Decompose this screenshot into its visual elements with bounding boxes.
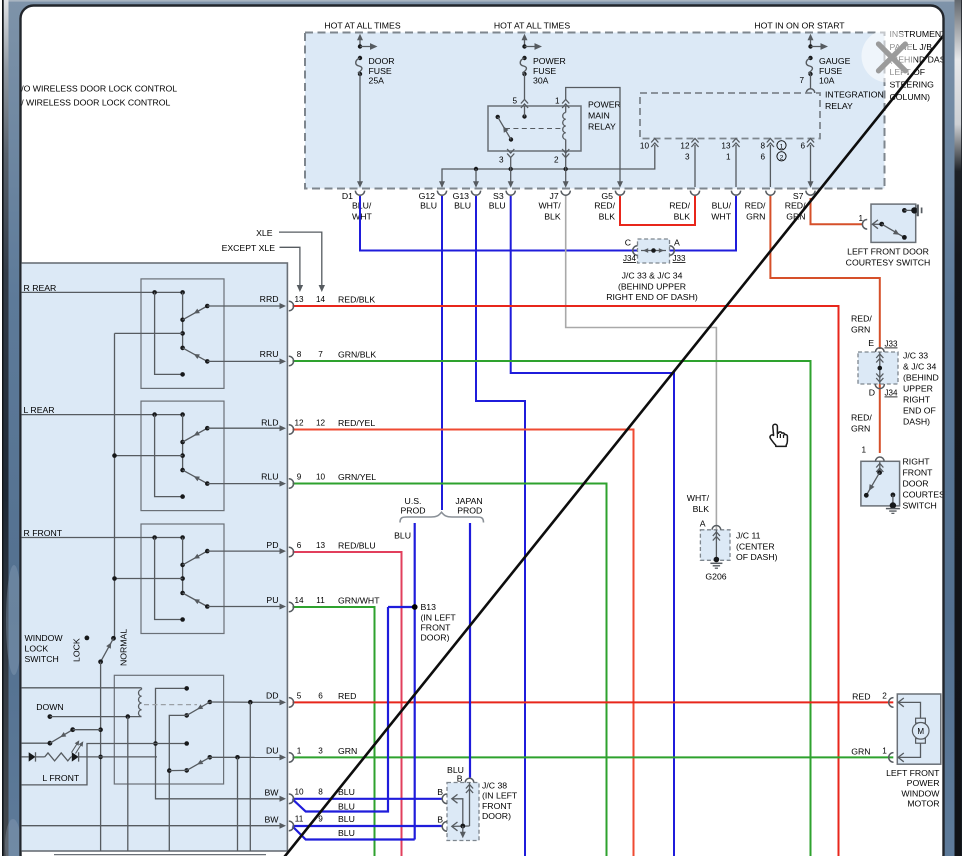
L REAR feed wire (19, 414, 183, 416)
svg-text:PROD: PROD (400, 506, 425, 516)
svg-text:FUSE: FUSE (819, 66, 842, 76)
J/C38 internal wires (469, 783, 471, 827)
svg-text:BLU: BLU (338, 801, 355, 811)
svg-text:JAPAN: JAPAN (455, 496, 482, 506)
svg-text:R REAR: R REAR (24, 283, 57, 293)
connector S3 at x=510.7 (506, 191, 515, 196)
svg-text:RED/: RED/ (669, 201, 690, 211)
svg-text:30A: 30A (533, 75, 549, 85)
R FRONT outputs to connector (207, 550, 282, 552)
svg-text:DOOR: DOOR (369, 56, 395, 66)
svg-text:6: 6 (760, 153, 765, 162)
svg-text:RELAY: RELAY (588, 122, 616, 132)
svg-text:FUSE: FUSE (533, 66, 556, 76)
R FRONT pole column (182, 538, 184, 594)
svg-text:RRD: RRD (260, 294, 279, 304)
relay pin 1 (562, 100, 569, 104)
svg-text:BLU: BLU (420, 201, 437, 211)
svg-text:1: 1 (780, 143, 784, 150)
svg-text:WHT: WHT (352, 212, 372, 222)
R FRONT up arm (183, 551, 208, 565)
svg-text:FUSE: FUSE (369, 66, 392, 76)
L REAR down arm (183, 470, 208, 484)
ground symbol G206 (710, 562, 722, 564)
svg-text:J33: J33 (673, 254, 686, 263)
svg-text:GRN: GRN (746, 212, 765, 222)
svg-text:SWITCH: SWITCH (903, 501, 937, 511)
svg-text:GRN: GRN (338, 746, 357, 756)
svg-text:1: 1 (858, 214, 863, 223)
L REAR up arm (183, 428, 208, 442)
svg-text:MAIN: MAIN (588, 111, 610, 121)
svg-text:FRONT: FRONT (482, 801, 513, 811)
svg-text:END OF: END OF (903, 406, 936, 416)
svg-text:M: M (917, 727, 924, 736)
mouse cursor (hand pointer) (770, 424, 787, 446)
wire G5 RED/BLK loop to relay pin 12/3 (620, 196, 695, 225)
coil junction drop (127, 717, 129, 851)
svg-text:J/C 11: J/C 11 (736, 531, 761, 541)
svg-text:J/C 33 & J/C 34: J/C 33 & J/C 34 (622, 271, 683, 281)
wire S3 BLU to long drop x674 (511, 196, 674, 856)
connector J7 at x=565.7 (561, 191, 570, 196)
svg-text:DASH): DASH) (903, 417, 930, 427)
svg-text:10: 10 (640, 142, 650, 151)
svg-text:BLU: BLU (338, 828, 355, 838)
common bus vertical (114, 333, 116, 638)
DU arm (184, 768, 189, 773)
svg-text:J33: J33 (885, 340, 898, 349)
LED arrows (72, 742, 79, 753)
svg-text:XLE: XLE (256, 228, 273, 238)
inner feed top (156, 688, 283, 798)
svg-text:HOT AT ALL TIMES: HOT AT ALL TIMES (494, 21, 570, 31)
junction S3 / pin3 (509, 167, 513, 171)
svg-text:U.S.: U.S. (405, 496, 422, 506)
L REAR pole column (182, 415, 184, 471)
svg-text:BLK: BLK (544, 212, 561, 222)
wire BW1 second BLU to B13 branch (293, 607, 389, 812)
R REAR up arm (183, 306, 208, 320)
svg-text:WHT/: WHT/ (687, 493, 710, 503)
svg-text:BLK: BLK (599, 212, 616, 222)
svg-text:PU: PU (266, 595, 278, 605)
svg-text:E: E (868, 338, 874, 348)
svg-text:C: C (625, 238, 631, 248)
junction connector J/C 33 & J/C 34 right (E/D) (858, 352, 898, 384)
connector G5 at x=620 (615, 191, 624, 196)
svg-text:BW: BW (265, 814, 280, 824)
svg-text:8: 8 (760, 142, 765, 151)
wire S7 RED/GRN to left front door courtesy switch (811, 198, 864, 224)
svg-text:7: 7 (799, 76, 804, 85)
DD arm (184, 713, 189, 718)
svg-text:S7: S7 (793, 191, 804, 201)
NC contact stub (156, 743, 187, 745)
connector S7 at x=810.5 (806, 191, 815, 196)
svg-text:(CENTER: (CENTER (736, 541, 775, 551)
svg-text:13: 13 (294, 295, 304, 304)
svg-text:W/O WIRELESS DOOR LOCK CONTROL: W/O WIRELESS DOOR LOCK CONTROL (13, 84, 177, 94)
svg-text:RLD: RLD (261, 418, 278, 428)
wire: door fuse to D1 (359, 74, 361, 185)
gauge fuse 10A (810, 37, 812, 47)
svg-text:RIGHT: RIGHT (903, 457, 931, 467)
R REAR feed wire (19, 291, 183, 293)
R FRONT common feed from bus (115, 578, 183, 580)
coil feed stub from left edge (19, 687, 142, 689)
svg-text:RED: RED (338, 691, 356, 701)
svg-text:1: 1 (882, 747, 887, 756)
relay pin 2 (562, 154, 569, 158)
lock switch arm (111, 636, 116, 641)
svg-text:DOOR): DOOR) (482, 811, 511, 821)
svg-text:LEFT FRONT DOOR: LEFT FRONT DOOR (847, 247, 929, 257)
svg-text:BLU: BLU (338, 814, 355, 824)
left front door courtesy switch (871, 204, 916, 242)
svg-text:L REAR: L REAR (24, 405, 55, 415)
svg-text:GRN/BLK: GRN/BLK (338, 349, 376, 359)
svg-text:1: 1 (861, 446, 866, 455)
svg-text:W/ WIRELESS DOOR LOCK CONTROL: W/ WIRELESS DOOR LOCK CONTROL (13, 98, 171, 108)
wire row RRU GRN/BLK (293, 361, 811, 856)
DU output (210, 756, 282, 758)
connector RED/GRN at x=770.4 (766, 191, 775, 196)
svg-text:RED/: RED/ (745, 201, 766, 211)
right chrome strips (955, 0, 962, 856)
svg-text:BLU/: BLU/ (712, 201, 732, 211)
wire row RLU GRN/YEL (293, 484, 607, 856)
svg-text:14: 14 (316, 295, 326, 304)
svg-text:WINDOW: WINDOW (25, 633, 64, 643)
lock contact (85, 636, 90, 641)
svg-text:2: 2 (882, 692, 887, 701)
relay coil (563, 113, 566, 140)
svg-text:7: 7 (318, 350, 323, 359)
svg-text:B13: B13 (421, 602, 437, 612)
door fuse 25A (359, 37, 361, 47)
svg-text:13: 13 (721, 142, 731, 151)
svg-text:9: 9 (297, 473, 302, 482)
svg-text:DOWN: DOWN (36, 702, 64, 712)
L REAR switch unit box (141, 401, 224, 511)
svg-text:POWER: POWER (533, 56, 566, 66)
wire B13 branch to BW1 (388, 606, 415, 608)
l front switch arm (19, 742, 50, 744)
wire BW1 BLU to J/C38 pin B (293, 798, 443, 800)
integration relay pin 12/3 wire (691, 139, 698, 143)
svg-text:GRN: GRN (851, 747, 870, 757)
R FRONT down arm (183, 593, 208, 607)
svg-text:RED: RED (852, 692, 870, 702)
wire row DU GRN to motor pin 1 (293, 756, 894, 758)
bottom bus BW2 (19, 825, 282, 827)
relay mechanical link (dashed) (505, 128, 561, 130)
svg-text:SWITCH: SWITCH (25, 654, 59, 664)
svg-text:PD: PD (266, 540, 278, 550)
wire G13 BLU to long drop x525 (476, 196, 525, 856)
mechanical link dashed (144, 704, 197, 706)
power main relay U1 box (488, 106, 581, 151)
svg-text:D: D (869, 388, 875, 398)
svg-text:UPPER: UPPER (903, 384, 933, 394)
svg-text:3: 3 (685, 153, 690, 162)
R FRONT switch unit box (141, 524, 224, 634)
svg-text:MOTOR: MOTOR (907, 799, 939, 809)
wire RED/GRN relay 8/6 to J/C33 E (770, 196, 879, 349)
R REAR common feed from bus (115, 332, 183, 334)
svg-text:G206: G206 (705, 572, 726, 582)
down feed terminal (48, 714, 53, 719)
svg-text:DOOR: DOOR (903, 479, 929, 489)
svg-text:RIGHT: RIGHT (903, 395, 931, 405)
svg-text:HOT IN ON OR START: HOT IN ON OR START (754, 21, 845, 31)
svg-text:10: 10 (316, 473, 326, 482)
svg-text:GAUGE: GAUGE (819, 56, 851, 66)
R FRONT bypass to lower contact (155, 538, 183, 620)
svg-text:WINDOW: WINDOW (901, 788, 940, 798)
svg-text:G13: G13 (453, 191, 470, 201)
svg-text:RED/BLK: RED/BLK (338, 294, 375, 304)
svg-text:G5: G5 (601, 191, 613, 201)
L REAR bypass to lower contact (155, 415, 183, 497)
svg-text:R FRONT: R FRONT (24, 528, 63, 538)
svg-text:POWER: POWER (907, 778, 940, 788)
svg-text:LOCK: LOCK (72, 638, 82, 662)
svg-text:8: 8 (318, 787, 323, 796)
svg-text:RED/: RED/ (594, 201, 615, 211)
integration relay pin 13/1 wire (732, 139, 739, 143)
svg-text:B: B (437, 815, 443, 825)
down relay box (114, 675, 223, 784)
svg-text:1: 1 (726, 153, 731, 162)
svg-text:B: B (437, 787, 443, 797)
svg-text:J34: J34 (885, 389, 898, 398)
svg-text:& J/C 34: & J/C 34 (903, 362, 936, 372)
svg-text:J7: J7 (550, 191, 559, 201)
svg-text:RLU: RLU (261, 472, 278, 482)
arm link U (169, 715, 186, 851)
svg-text:WHT/: WHT/ (538, 201, 561, 211)
relay pin 3 (507, 154, 514, 158)
svg-text:BLU/: BLU/ (352, 201, 372, 211)
svg-text:6: 6 (297, 541, 302, 550)
svg-text:RELAY: RELAY (825, 101, 853, 111)
svg-text:11: 11 (316, 596, 325, 605)
svg-text:3: 3 (318, 747, 323, 756)
R REAR down arm (183, 348, 208, 362)
svg-text:L FRONT: L FRONT (42, 773, 80, 783)
DD output (210, 701, 282, 703)
svg-text:J34: J34 (623, 254, 636, 263)
R FRONT feed wire (19, 537, 183, 539)
svg-text:8: 8 (297, 350, 302, 359)
wire: gauge fuse to integration relay pin 7 (810, 74, 812, 90)
left front power window motor box (897, 694, 941, 764)
integration relay pin 8/6 wire (767, 139, 774, 143)
junction G13 drop (474, 167, 478, 171)
svg-text:NORMAL: NORMAL (118, 629, 128, 666)
down relay coil (139, 690, 142, 717)
wire row RLD RED/YEL (293, 430, 634, 856)
svg-text:GRN: GRN (851, 424, 870, 434)
svg-text:FRONT: FRONT (421, 623, 452, 633)
svg-text:DOOR): DOOR) (421, 633, 450, 643)
lock pivot drop (100, 662, 102, 851)
wire row PU GRN/WHT (293, 607, 375, 856)
connector RED/BLK at x=695 (690, 191, 699, 196)
svg-text:14: 14 (294, 596, 304, 605)
svg-text:J/C 33: J/C 33 (903, 351, 928, 361)
svg-text:2: 2 (780, 154, 784, 161)
wire BW2 BLU to J/C38 pin B (293, 825, 443, 827)
wire BW2 second BLU to B13 vertical (293, 826, 415, 839)
svg-text:RED/YEL: RED/YEL (338, 418, 375, 428)
connector D1 at x=360 (355, 191, 364, 196)
svg-text:1: 1 (555, 97, 560, 106)
svg-text:12: 12 (680, 142, 690, 151)
svg-text:GRN/WHT: GRN/WHT (338, 595, 380, 605)
svg-text:J/C 38: J/C 38 (482, 781, 507, 791)
svg-text:GRN/YEL: GRN/YEL (338, 472, 376, 482)
integration relay pin 10 (651, 139, 658, 143)
bus wire pins 3/2/10 to connectors (442, 145, 655, 187)
svg-text:RIGHT END OF DASH): RIGHT END OF DASH) (606, 292, 698, 302)
svg-text:RED/: RED/ (851, 413, 872, 423)
wire row RRD RED/BLK (293, 306, 839, 856)
svg-text:LOCK: LOCK (25, 644, 49, 654)
bottom edge bus (54, 854, 266, 856)
svg-text:5: 5 (297, 692, 302, 701)
R REAR pole column (182, 292, 184, 348)
svg-text:BLU: BLU (454, 201, 471, 211)
connector BLU/WHT at x=736 (731, 191, 740, 196)
wire U.S. PROD BLU through B13 (414, 523, 416, 840)
master switch assembly box (19, 263, 287, 851)
case ground symbol (917, 205, 919, 217)
motor M symbol (916, 718, 926, 723)
svg-text:6: 6 (318, 692, 323, 701)
L REAR common feed from bus (115, 455, 183, 457)
junction connector J/C 33 & J/C 34 (behind upper right end of dash) (638, 239, 670, 263)
pin 7 connector on integration relay (806, 89, 815, 93)
svg-text:(BEHIND: (BEHIND (903, 373, 939, 383)
wire: power fuse to relay pin 5 (524, 74, 526, 100)
wire: relay pin1 loop to G5 (566, 88, 620, 185)
svg-text:BLU: BLU (394, 531, 411, 541)
svg-text:10A: 10A (819, 75, 835, 85)
svg-text:POWER: POWER (588, 100, 621, 110)
svg-text:DU: DU (266, 746, 279, 756)
svg-text:3: 3 (499, 156, 504, 165)
left chrome strips (0, 0, 2, 856)
svg-text:BW: BW (265, 787, 280, 797)
relay contact arm (496, 115, 500, 119)
svg-text:FRONT: FRONT (903, 468, 934, 478)
svg-text:LEFT FRONT: LEFT FRONT (886, 768, 940, 778)
svg-text:OF DASH): OF DASH) (736, 552, 778, 562)
circled numbers 1 2 (777, 141, 786, 150)
svg-text:12: 12 (316, 419, 326, 428)
ground symbol (right courtesy switch) (886, 508, 900, 510)
wire row PD RED/BLU (293, 552, 402, 856)
svg-text:G12: G12 (419, 191, 436, 201)
svg-text:(BEHIND UPPER: (BEHIND UPPER (618, 281, 686, 291)
svg-text:S3: S3 (493, 191, 504, 201)
wire net D1 BLU/WHT to J/C33-C and relay 13/1 (360, 196, 638, 251)
svg-text:D1: D1 (342, 191, 353, 201)
svg-text:6: 6 (800, 142, 805, 151)
svg-text:BLK: BLK (693, 504, 710, 514)
svg-text:INTEGRATION: INTEGRATION (825, 90, 884, 100)
close button (X) (862, 30, 915, 83)
svg-text:BLK: BLK (674, 212, 691, 222)
instrument panel junction block (dashed box) (305, 33, 885, 189)
svg-text:RED/: RED/ (851, 314, 872, 324)
R REAR bypass to lower contact (155, 292, 183, 374)
svg-text:GRN: GRN (851, 325, 870, 335)
wire JAPAN PROD BLU to J/C38 top (469, 523, 471, 778)
svg-text:WHT: WHT (711, 212, 731, 222)
svg-text:13: 13 (316, 541, 326, 550)
svg-text:RED/BLU: RED/BLU (338, 540, 376, 550)
svg-text:10: 10 (294, 787, 304, 796)
junction J7 / pin2 (564, 167, 568, 171)
l front select loop (19, 744, 156, 785)
annotation diagonal line (284, 34, 944, 856)
svg-text:(IN LEFT: (IN LEFT (482, 791, 518, 801)
relay pin 5 (521, 100, 528, 104)
connector G12 at x=442 (437, 191, 446, 196)
svg-text:25A: 25A (369, 75, 385, 85)
node B13 (412, 604, 418, 610)
svg-text:BLU: BLU (489, 201, 506, 211)
relay plunger dot pin5 (522, 114, 526, 118)
svg-text:A: A (674, 238, 680, 248)
diode resistor LED row (19, 756, 29, 758)
integration relay box (dashed) (640, 93, 820, 139)
svg-text:DD: DD (266, 691, 279, 701)
svg-text:12: 12 (294, 419, 304, 428)
R REAR switch unit box (141, 279, 224, 389)
L REAR outputs to connector (207, 427, 282, 429)
svg-text:COURTESY SWITCH: COURTESY SWITCH (846, 257, 931, 267)
svg-text:(IN LEFT: (IN LEFT (421, 613, 457, 623)
integration relay pin 6 wire (807, 139, 814, 143)
connector G13 at x=476 (471, 191, 480, 196)
svg-text:5: 5 (512, 97, 517, 106)
svg-text:2: 2 (554, 156, 559, 165)
svg-text:EXCEPT XLE: EXCEPT XLE (222, 243, 276, 253)
wire J7 WHT/BLK to J/C11 (566, 196, 717, 560)
svg-text:A: A (700, 519, 706, 529)
wire RED/GRN J/C33 D to right front door courtesy switch (879, 384, 881, 453)
wire G12 BLU down to production brace (441, 196, 443, 510)
svg-text:PROD: PROD (457, 506, 482, 516)
power fuse 30A (524, 37, 526, 47)
R REAR outputs to connector (207, 305, 282, 307)
wire row DD RED to motor pin 2 (293, 701, 894, 703)
svg-text:1: 1 (297, 747, 302, 756)
svg-text:HOT AT ALL TIMES: HOT AT ALL TIMES (324, 21, 400, 31)
production variant brace (400, 512, 484, 522)
svg-text:11: 11 (295, 814, 304, 823)
svg-text:RRU: RRU (260, 349, 279, 359)
